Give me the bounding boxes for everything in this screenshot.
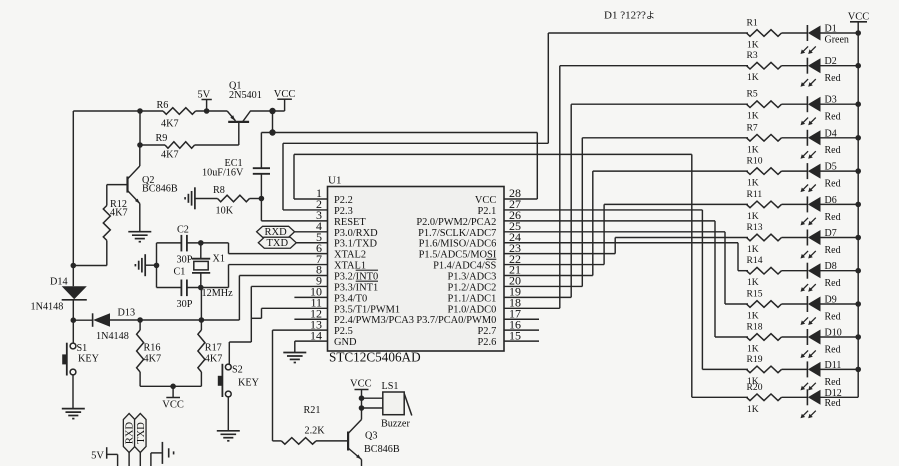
wire R7 to D4	[782, 137, 808, 139]
wire D3 to VCC rail	[821, 103, 859, 105]
svg-text:1K: 1K	[747, 111, 759, 122]
svg-text:D1 ?12??: D1 ?12??	[604, 10, 646, 22]
wire R10 to D5	[782, 170, 808, 172]
junction dot rail row 9	[855, 301, 861, 307]
wire pin19 stub	[504, 296, 571, 298]
svg-text:4K7: 4K7	[144, 353, 162, 364]
resistor R5 1K	[747, 89, 782, 122]
svg-text:Red: Red	[825, 112, 841, 123]
wire pin12 stub	[294, 318, 327, 320]
wire pin1 drop to D12 row	[691, 154, 693, 397]
svg-text:Green: Green	[825, 35, 849, 46]
svg-text:Red: Red	[825, 212, 841, 223]
wire pin26 stub	[504, 220, 715, 222]
wire D6 to VCC rail	[821, 203, 859, 205]
LED D8 Red	[801, 261, 841, 292]
pin numbers U1	[310, 186, 521, 342]
svg-text:Red: Red	[825, 145, 841, 156]
resistor R6 4K7	[157, 100, 196, 129]
wire row D4 horizontal	[582, 137, 748, 139]
svg-text:P2.7: P2.7	[478, 326, 497, 337]
wire S2 jog horizontal	[229, 341, 251, 343]
LED D5 Red	[801, 162, 841, 193]
junction dot X1 bottom	[198, 285, 204, 291]
wire D5 to VCC rail	[821, 170, 859, 172]
wire R3 to D2	[782, 65, 808, 67]
caption text	[604, 10, 655, 22]
svg-text:Red: Red	[825, 179, 841, 190]
svg-text:2N5401: 2N5401	[229, 90, 262, 101]
wire D13 line	[110, 319, 239, 321]
wire R9 to Q1 base	[195, 144, 239, 146]
wire row D9 horizontal	[725, 303, 748, 305]
junction dot rail row 2	[855, 63, 861, 69]
svg-text:Red: Red	[825, 311, 841, 322]
svg-text:1K: 1K	[747, 404, 759, 415]
svg-text:Red: Red	[825, 73, 841, 84]
svg-text:C1: C1	[174, 266, 186, 277]
flag TXD	[258, 237, 296, 249]
wire pin4	[295, 231, 328, 233]
svg-text:P1.5/ADC5/MOSI: P1.5/ADC5/MOSI	[419, 250, 497, 261]
svg-text:1K: 1K	[747, 178, 759, 189]
wire D2 to VCC rail	[821, 65, 859, 67]
wire pin20 riser	[581, 138, 583, 287]
LED D1 Green	[801, 24, 849, 55]
wire pin21 stub	[504, 275, 593, 277]
wire pin28 riser	[536, 133, 538, 200]
junction dot R6 left	[137, 108, 143, 114]
wire R18 to D10	[782, 336, 808, 338]
wire pin13 riser	[272, 330, 274, 441]
wire VCC feed horizontal	[261, 132, 537, 134]
resistor R18 1K	[747, 322, 782, 355]
svg-text:Red: Red	[825, 377, 841, 388]
svg-text:1K: 1K	[747, 144, 759, 155]
wire XTAL2 link	[228, 243, 230, 254]
svg-text:R19: R19	[747, 354, 763, 365]
wire pin2 rise to D1 row	[547, 33, 549, 143]
svg-text:R17: R17	[205, 342, 222, 353]
wire R21 to Q3	[316, 440, 348, 442]
junction dot rail row 6	[855, 202, 861, 208]
wire R13 to D7	[782, 237, 808, 239]
wire R19 to D11	[782, 368, 808, 370]
svg-text:1N4148: 1N4148	[96, 331, 129, 342]
ground pin14	[283, 353, 306, 363]
junction dot key node	[71, 317, 77, 323]
wire pin26 riser	[714, 221, 716, 337]
resistor R3 1K	[747, 50, 782, 83]
junction dot rail row 10	[855, 334, 861, 340]
junction dot crystal gnd	[154, 263, 160, 269]
svg-text:D13: D13	[118, 308, 136, 319]
LED D11 Red	[801, 360, 842, 391]
LED D12 Red	[801, 388, 842, 419]
resistor R20 1K	[747, 382, 782, 415]
transistor Q2 BC846B	[107, 145, 178, 204]
wire R20 to D12	[782, 396, 808, 398]
capacitor EC1 10uF/16V	[202, 158, 270, 179]
diode D14 1N4148	[31, 277, 87, 313]
LED D4 Red	[801, 128, 841, 159]
svg-text:R9: R9	[156, 133, 168, 144]
wire R6 to Q1	[196, 110, 228, 112]
svg-text:30P: 30P	[177, 299, 193, 310]
resistor R12 4K7	[103, 199, 127, 241]
junction dot rail R12	[71, 263, 77, 269]
svg-text:VCC: VCC	[162, 400, 184, 411]
wire crystal left rail	[156, 243, 158, 288]
wire pin5	[296, 242, 327, 244]
resistor R16 4K7	[137, 320, 161, 372]
wire Q3 emitter	[361, 460, 363, 466]
svg-text:Buzzer: Buzzer	[381, 419, 410, 430]
LED D9 Red	[801, 295, 841, 326]
wire D7 to VCC rail	[821, 237, 859, 239]
wire pin15 stub	[504, 340, 539, 342]
svg-text:P1.4/ADC4/SS: P1.4/ADC4/SS	[433, 261, 496, 272]
svg-text:U1: U1	[328, 175, 341, 187]
svg-text:Red: Red	[825, 344, 841, 355]
svg-text:TXD: TXD	[267, 238, 289, 249]
wire pin27 riser	[701, 210, 703, 369]
svg-text:R18: R18	[747, 322, 763, 333]
power 5V symbol	[197, 90, 211, 112]
resistor R7 1K	[747, 122, 782, 155]
wire pin24 riser	[737, 243, 739, 271]
svg-text:Q3: Q3	[365, 431, 377, 442]
svg-text:TXD: TXD	[136, 422, 147, 444]
wire D4 to VCC rail	[821, 137, 859, 139]
svg-text:R11: R11	[747, 189, 763, 200]
svg-text:C2: C2	[177, 225, 189, 236]
diode D13 1N4148	[93, 308, 135, 343]
ground Q2 emitter	[128, 232, 151, 242]
resistor R13 1K	[747, 222, 782, 255]
wire pin10 stub	[294, 296, 327, 298]
svg-text:2.2K: 2.2K	[305, 425, 326, 436]
svg-text:R16: R16	[144, 342, 161, 353]
ground bottom serial	[151, 442, 174, 466]
svg-text:P3.1/TXD: P3.1/TXD	[334, 239, 378, 250]
ground R8 left	[185, 187, 195, 209]
svg-text:XTAL2: XTAL2	[334, 250, 366, 261]
wire pin11	[262, 307, 328, 309]
wire row D11 horizontal	[702, 368, 748, 370]
wire pin21 riser	[592, 171, 594, 275]
svg-text:VCC: VCC	[350, 379, 372, 390]
junction dot rail row 5	[855, 168, 861, 174]
ground S2	[217, 431, 240, 441]
svg-text:P1.2/ADC2: P1.2/ADC2	[448, 282, 497, 293]
svg-text:VCC: VCC	[274, 89, 296, 100]
svg-text:P2.1: P2.1	[478, 206, 497, 217]
svg-text:RESET: RESET	[334, 217, 366, 228]
svg-text:1N4148: 1N4148	[31, 302, 64, 313]
wire pin3 RESET	[261, 220, 327, 222]
resistor R8 10K	[213, 185, 250, 217]
wire pin25 riser	[724, 232, 726, 304]
wire pin2 stub	[283, 209, 328, 211]
wire D10 to VCC rail	[821, 336, 859, 338]
svg-text:よ: よ	[646, 11, 655, 21]
wire row D1 horizontal	[548, 32, 748, 34]
svg-text:RXD: RXD	[265, 227, 288, 238]
wire VCC rail vertical	[857, 33, 859, 397]
svg-text:R14: R14	[747, 255, 763, 266]
svg-text:R10: R10	[747, 156, 763, 167]
svg-text:VCC: VCC	[848, 12, 870, 23]
wire row D3 horizontal	[571, 103, 748, 105]
svg-text:1K: 1K	[747, 277, 759, 288]
wire node to S1	[72, 320, 74, 408]
wire pin14 GND	[295, 340, 328, 342]
svg-text:4K7: 4K7	[161, 118, 179, 129]
wire row D8 horizontal	[738, 270, 748, 272]
svg-text:P3.7/PCA0/PWM0: P3.7/PCA0/PWM0	[416, 315, 496, 326]
wire pin2 riser	[282, 143, 284, 210]
resistor R14 1K	[747, 255, 782, 288]
svg-text:1K: 1K	[747, 311, 759, 322]
wire D8 to VCC rail	[821, 270, 859, 272]
svg-text:P1.0/ADC0: P1.0/ADC0	[448, 304, 497, 315]
wire EC1 bottom	[260, 174, 262, 221]
LED D2 Red	[801, 56, 841, 87]
flag TXD vertical	[135, 414, 147, 466]
svg-text:P2.5: P2.5	[334, 326, 353, 337]
svg-text:P2.2: P2.2	[334, 195, 353, 206]
svg-text:P1.7/SCLK/ADC7: P1.7/SCLK/ADC7	[418, 228, 496, 239]
wire R16 R17 bottoms	[140, 372, 201, 386]
svg-text:R5: R5	[747, 89, 758, 100]
wire R11 to D6	[782, 203, 808, 205]
svg-text:P2.6: P2.6	[478, 337, 497, 348]
junction dot X1 top	[198, 240, 204, 246]
transistor Q1 2N5401	[227, 81, 262, 146]
LED D10 Red	[801, 328, 842, 359]
svg-text:Red: Red	[825, 278, 841, 289]
power VCC buzzer symbol	[350, 379, 372, 420]
svg-text:Red: Red	[825, 245, 841, 256]
wire R12 top	[106, 185, 108, 206]
svg-text:R20: R20	[747, 382, 763, 393]
wire pin11 jog	[251, 317, 261, 319]
LED D6 Red	[801, 195, 841, 226]
svg-text:P2.0/PWM2/PCA2: P2.0/PWM2/PCA2	[416, 217, 496, 228]
svg-text:1K: 1K	[747, 244, 759, 255]
LED D7 Red	[801, 228, 841, 259]
wire pin13	[273, 329, 328, 331]
wire D11 to VCC rail	[821, 368, 859, 370]
ground crystal	[135, 254, 156, 276]
wire pin20 stub	[504, 285, 582, 287]
wire S2 lead	[228, 342, 230, 364]
wire pin19 riser	[570, 104, 572, 297]
wire pin14 drop	[294, 341, 296, 352]
wire D9 to VCC rail	[821, 303, 859, 305]
wire node to D13	[73, 319, 92, 321]
wire R8 to node	[250, 198, 262, 200]
wire pin22 riser	[603, 204, 605, 264]
wire left rail R6-R9	[139, 111, 141, 145]
switch S1 KEY	[62, 343, 99, 376]
wire pin9 riser	[250, 286, 252, 342]
wire pin8	[239, 275, 327, 277]
svg-text:10K: 10K	[216, 206, 234, 217]
wire pin1 riser	[293, 154, 295, 199]
svg-text:P1.1/ADC1: P1.1/ADC1	[448, 293, 497, 304]
svg-text:Red: Red	[825, 398, 841, 409]
wire R12 bottom	[73, 240, 107, 265]
junction dot rail row 3	[855, 101, 861, 107]
junction dot buzzer top	[359, 395, 365, 401]
wire to R21	[273, 440, 282, 442]
wire pin23 stub	[504, 253, 615, 255]
svg-text:GND: GND	[334, 337, 357, 348]
svg-text:P3.5/T1/PWM1: P3.5/T1/PWM1	[334, 304, 400, 315]
svg-text:BC846B: BC846B	[364, 444, 400, 455]
junction dot rail row 1	[855, 30, 861, 36]
wire pin7 XTAL1	[229, 264, 328, 266]
wire row D6 horizontal	[604, 203, 748, 205]
junction dot rail row 4	[855, 135, 861, 141]
wire pin16 stub	[504, 329, 539, 331]
svg-text:R21: R21	[304, 405, 321, 416]
wire crystal bottom rail	[157, 287, 229, 289]
ground S1	[62, 409, 85, 419]
svg-text:R1: R1	[747, 18, 758, 29]
wire pin11 riser	[261, 308, 263, 318]
wire XTAL1 link	[228, 265, 230, 288]
flag RXD	[257, 226, 295, 238]
wire pin25 stub	[504, 231, 725, 233]
svg-text:P1.3/ADC3: P1.3/ADC3	[448, 272, 497, 283]
wire R5 to D3	[782, 103, 808, 105]
wire pin24 stub	[504, 242, 738, 244]
junction dot rail row 8	[855, 268, 861, 274]
wire row D7 horizontal	[615, 237, 748, 239]
wire left rail	[72, 111, 74, 286]
wire pin23 riser	[614, 238, 616, 254]
svg-text:1K: 1K	[747, 344, 759, 355]
resistor R15 1K	[747, 289, 782, 322]
svg-text:1K: 1K	[747, 40, 759, 51]
svg-text:D14: D14	[50, 277, 68, 288]
svg-text:30P: 30P	[177, 254, 193, 265]
resistor R17 4K7	[198, 320, 222, 372]
resistor R21 2.2K	[281, 405, 325, 444]
wire crystal top rail	[157, 242, 229, 244]
wire row D10 horizontal	[715, 336, 748, 338]
junction dot rail row 7	[855, 235, 861, 241]
svg-text:P3.0/RXD: P3.0/RXD	[334, 228, 378, 239]
junction dot Q1 VCC node	[269, 108, 275, 114]
power VCC top symbol	[274, 89, 296, 111]
junction dot buzzer bottom	[359, 405, 365, 411]
op-amp U1 microcontroller STC12C5406AD	[328, 175, 505, 365]
wire R14 to D8	[782, 270, 808, 272]
junction dot VCC feed	[269, 129, 275, 135]
wire pin18 stub	[504, 307, 560, 309]
svg-text:1K: 1K	[747, 72, 759, 83]
wire pin8 riser	[238, 276, 240, 320]
power VCC down symbol	[162, 386, 184, 410]
junction dot R16 top	[137, 317, 143, 323]
svg-text:S1: S1	[77, 343, 88, 354]
junction dot 5V	[204, 108, 210, 114]
junction dot VCC bottom	[170, 384, 176, 390]
wire pin22 stub	[504, 264, 604, 266]
svg-text:4K7: 4K7	[205, 353, 223, 364]
svg-text:P1.6/MISO/ADC6: P1.6/MISO/ADC6	[419, 239, 497, 250]
svg-text:STC12C5406AD: STC12C5406AD	[329, 350, 421, 365]
svg-text:LS1: LS1	[382, 381, 399, 392]
svg-text:P3.4/T0: P3.4/T0	[334, 293, 367, 304]
svg-text:4K7: 4K7	[110, 208, 128, 219]
svg-text:R6: R6	[157, 100, 169, 111]
wire pin27 stub	[504, 209, 702, 211]
svg-text:R13: R13	[747, 222, 763, 233]
wire VCC node drop	[272, 111, 274, 133]
wire D12 to VCC rail	[821, 396, 859, 398]
wire pin1 stub	[294, 198, 328, 200]
svg-text:KEY: KEY	[78, 354, 100, 365]
svg-text:5V: 5V	[91, 451, 104, 462]
wire pin28 VCC stub	[504, 198, 537, 200]
wire top rail	[73, 110, 163, 112]
wire row D5 horizontal	[593, 170, 748, 172]
wire row D2 horizontal	[560, 65, 748, 67]
transistor Q3 BC846B	[348, 420, 400, 460]
wire D1 to VCC rail	[821, 32, 859, 34]
wire Q1 collector to VCC	[251, 110, 285, 113]
resistor R11 1K	[747, 189, 782, 222]
svg-text:R15: R15	[747, 289, 763, 300]
resistor R1 1K	[747, 18, 782, 51]
wire D14 to node	[72, 300, 74, 320]
junction dot R17 top	[199, 317, 205, 323]
wire pin2 top run	[283, 142, 548, 144]
wire S2 to ground	[227, 397, 229, 431]
wire R9 left	[140, 144, 165, 146]
wire pin18 riser	[559, 66, 561, 309]
LED D3 Red	[801, 95, 841, 126]
flag RXD vertical	[123, 414, 135, 466]
svg-text:P3.3/INT1: P3.3/INT1	[334, 282, 378, 293]
wire Q2 emitter down	[139, 204, 141, 232]
wire row D12 horizontal	[692, 396, 748, 398]
wire pin1 top run	[294, 153, 692, 155]
junction dot R8 node	[259, 196, 265, 202]
wire gnd to R8	[195, 198, 218, 200]
svg-text:10uF/16V: 10uF/16V	[202, 168, 244, 179]
svg-text:P2.4/PWM3/PCA3: P2.4/PWM3/PCA3	[334, 315, 414, 326]
svg-text:R7: R7	[747, 122, 758, 133]
wire EC1 top	[260, 133, 262, 169]
svg-text:4K7: 4K7	[161, 149, 179, 160]
wire pin6 XTAL2	[229, 253, 328, 255]
svg-text:R8: R8	[213, 185, 225, 196]
buzzer LS1	[381, 381, 412, 430]
svg-text:R3: R3	[747, 50, 758, 61]
wire pin17 stub	[504, 318, 539, 320]
crystal X1 12MHz	[192, 243, 233, 299]
resistor R19 1K	[747, 354, 782, 387]
svg-text:1K: 1K	[747, 211, 759, 222]
svg-text:P2.3: P2.3	[334, 206, 353, 217]
wire pin9	[251, 285, 327, 287]
